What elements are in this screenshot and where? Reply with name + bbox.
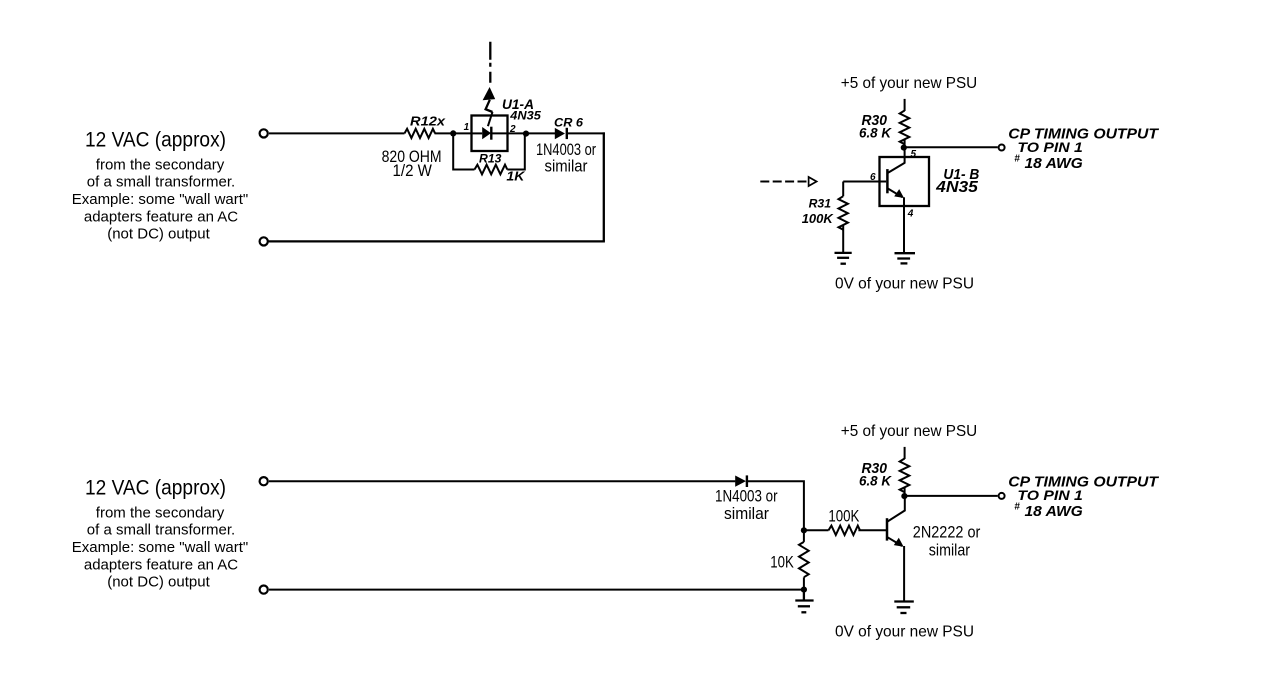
resistor R31 [839, 182, 848, 253]
svg-text:similar: similar [929, 541, 970, 560]
svg-text:1N4003 or: 1N4003 or [715, 488, 778, 506]
label +5 of your new PSU (bottom) [841, 423, 977, 440]
resistor R13 bypass loop [453, 133, 525, 174]
label R30 (bottom) [862, 460, 888, 477]
value label 1N4003 or similar (top) [536, 141, 596, 175]
node: divider junction dot [801, 527, 807, 533]
resistor 10K (bottom) [799, 530, 809, 589]
resistor R12x [405, 113, 446, 138]
svg-text:+5 of your new PSU: +5 of your new PSU [841, 423, 977, 440]
terminal output (top) [999, 145, 1005, 151]
phototransistor inside U1-B [887, 148, 905, 252]
note text: transformer description bottom [72, 504, 249, 590]
wire: +5 to R30 (top) [904, 99, 906, 111]
node 1 junction dot [450, 130, 456, 136]
label 100K (R31) [802, 211, 835, 226]
wire: +5 to R30 (bottom) [904, 447, 906, 459]
svg-text:R12x: R12x [410, 113, 446, 128]
ground under divider (bottom) [795, 590, 813, 613]
svg-text:0V of your new PSU: 0V of your new PSU [835, 624, 974, 641]
svg-text:from the secondary: from the secondary [96, 504, 225, 521]
value label 2N2222 or similar [913, 523, 981, 560]
label U1-B [943, 166, 979, 183]
label CP TIMING OUTPUT (bottom) [1008, 474, 1160, 520]
label 12 VAC (approx) top [85, 128, 226, 152]
svg-text:similar: similar [545, 158, 588, 176]
svg-text:Example: some "wall wart": Example: some "wall wart" [72, 539, 249, 556]
svg-text:TO PIN 1: TO PIN 1 [1017, 139, 1083, 155]
diode 1N4003 (bottom) [735, 475, 747, 487]
svg-text:(not DC) output: (not DC) output [107, 226, 210, 243]
svg-text:12 VAC (approx): 12 VAC (approx) [85, 128, 226, 152]
diode CR6 [554, 115, 583, 139]
svg-text:18 AWG: 18 AWG [1025, 155, 1084, 172]
svg-text:R13: R13 [479, 151, 502, 165]
ground under 2N2222 emitter [894, 602, 914, 614]
label 1K [506, 169, 525, 183]
terminal top-left upper [260, 129, 268, 137]
svg-text:4: 4 [907, 208, 914, 219]
svg-text:5: 5 [911, 149, 917, 160]
value label 820 OHM 1/2 W [382, 147, 442, 180]
label 0V of your new PSU (top) [835, 276, 974, 293]
wire: diode to corner, down to node (bottom) [747, 481, 804, 530]
node: collector junction dot (bottom) [901, 493, 907, 499]
pin 2 label [509, 124, 516, 135]
svg-text:6.8 K: 6.8 K [859, 474, 892, 489]
node: ground junction dot (bottom) [801, 587, 807, 593]
ground under U1-B emitter [895, 253, 916, 263]
svg-text:0V of your new PSU: 0V of your new PSU [835, 276, 974, 293]
label 6.8 K (top) [859, 126, 892, 141]
terminal output (bottom) [999, 493, 1005, 499]
svg-text:+5 of your new PSU: +5 of your new PSU [841, 75, 977, 92]
svg-text:18 AWG: 18 AWG [1025, 503, 1084, 520]
svg-text:#: # [1014, 154, 1020, 165]
wire: output (top) [905, 146, 998, 148]
wire: base to R31 (top) [843, 181, 886, 183]
terminal top-left lower [260, 237, 268, 245]
pin 5 label [911, 149, 917, 160]
svg-text:CR 6: CR 6 [554, 115, 583, 129]
label 12 VAC (approx) bottom [85, 476, 226, 500]
label 6.8 K (bottom) [859, 474, 892, 489]
label 100K (bottom) [828, 506, 860, 525]
svg-text:of a small transformer.: of a small transformer. [87, 522, 235, 539]
label +5 of your new PSU (top) [841, 75, 977, 92]
note text: transformer description top [72, 156, 249, 242]
svg-text:(not DC) output: (not DC) output [107, 574, 210, 591]
svg-text:6.8 K: 6.8 K [859, 126, 892, 141]
LED diode inside U1-A [472, 127, 508, 140]
wire: bottom return (top loop) [269, 240, 605, 242]
wire: output (bottom) [905, 495, 998, 497]
node 3 junction dot (top) [901, 145, 907, 151]
svg-text:similar: similar [724, 505, 769, 523]
svg-text:4N35: 4N35 [935, 179, 979, 196]
wire: input to diode (bottom) [269, 480, 735, 482]
value label 1N4003 or similar (bottom) [715, 488, 778, 524]
svg-text:TO PIN 1: TO PIN 1 [1017, 487, 1083, 503]
wire: node 2 to CR6 [508, 132, 556, 134]
node 2 junction dot [523, 131, 529, 137]
ground under R31 [835, 253, 852, 264]
terminal bottom-left upper [260, 477, 268, 485]
svg-text:1N4003 or: 1N4003 or [536, 141, 596, 159]
pin 1 label [464, 122, 470, 133]
svg-text:adapters feature an AC: adapters feature an AC [84, 208, 238, 225]
wire: CR6 to right corner [567, 132, 605, 134]
svg-text:4N35: 4N35 [509, 108, 541, 122]
wire: R12x to U1-A box [435, 132, 472, 134]
transistor 2N2222 [887, 496, 905, 601]
resistor R30 (bottom) [900, 459, 910, 497]
light emission arrow from U1-A [483, 87, 496, 126]
wire: bottom return (bottom loop) [269, 589, 804, 591]
opto U1-A box [472, 116, 508, 152]
resistor R30 (top) [900, 111, 910, 149]
label R13 [479, 151, 502, 165]
pin 4 label [907, 208, 914, 219]
dashed light-path arrow into U1-B [760, 177, 816, 186]
svg-text:#: # [1014, 502, 1020, 513]
terminal bottom-left lower [260, 586, 268, 594]
label 4N35 (U1-A) [509, 108, 541, 122]
label R30 (top) [862, 112, 888, 129]
label 10K (bottom) [770, 552, 794, 571]
svg-text:R31: R31 [809, 196, 832, 210]
svg-text:from the secondary: from the secondary [96, 156, 225, 173]
svg-text:1/2 W: 1/2 W [393, 161, 432, 180]
svg-text:1: 1 [464, 122, 470, 133]
wire: upper input to R12x [269, 132, 405, 134]
svg-text:12 VAC (approx): 12 VAC (approx) [85, 476, 226, 500]
dash-dot light path line above U1-A [489, 42, 491, 89]
svg-text:10K: 10K [770, 552, 794, 571]
svg-text:adapters feature an AC: adapters feature an AC [84, 556, 238, 573]
svg-text:2N2222 or: 2N2222 or [913, 523, 981, 542]
label 4N35 (U1-B) [935, 179, 979, 196]
pin 6 label [870, 172, 876, 183]
svg-text:of a small transformer.: of a small transformer. [87, 174, 235, 191]
resistor 100K (bottom, base) [804, 526, 886, 535]
label CP TIMING OUTPUT (top) [1008, 126, 1160, 172]
label R31 [809, 196, 832, 210]
label U1-A [502, 96, 534, 112]
label 0V of your new PSU (bottom) [835, 624, 974, 641]
svg-text:Example: some "wall wart": Example: some "wall wart" [72, 191, 249, 208]
wire: right vertical (top loop) [603, 132, 605, 241]
svg-text:100K: 100K [802, 211, 835, 226]
svg-text:100K: 100K [828, 506, 860, 525]
svg-text:1K: 1K [506, 169, 525, 183]
opto U1-B box [880, 157, 930, 206]
